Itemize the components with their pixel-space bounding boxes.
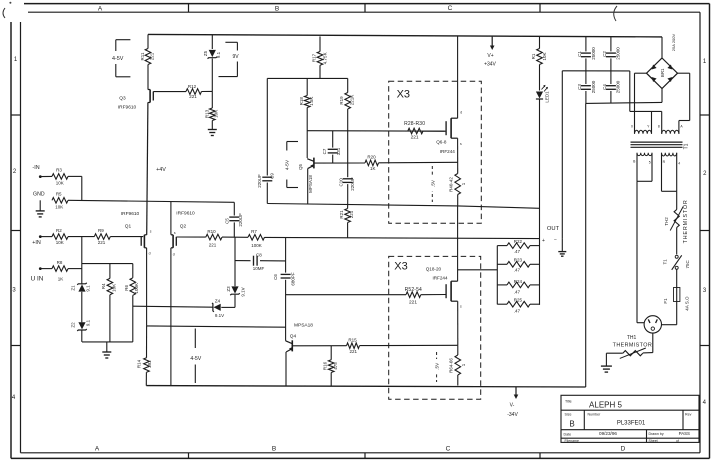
svg-text:R12: R12: [188, 84, 197, 89]
svg-text:10MF: 10MF: [253, 266, 265, 271]
svg-text:25000: 25000: [616, 47, 621, 60]
svg-text:s: s: [460, 305, 462, 309]
svg-text:100K: 100K: [134, 283, 139, 294]
svg-text:221: 221: [350, 349, 358, 354]
wire mid cap rail: [562, 70, 630, 72]
wire C6 to Q4 collector: [285, 280, 287, 341]
wire source resistors to OUT bus: [458, 206, 540, 208]
svg-text:221: 221: [409, 300, 417, 306]
svg-text:s: s: [460, 142, 462, 146]
wire R28-R30 to gate: [423, 130, 446, 132]
title block col lines: [583, 410, 585, 430]
svg-text:220UF: 220UF: [238, 213, 243, 227]
wire R8 to Z node: [68, 268, 82, 270]
svg-text:MPSA18: MPSA18: [308, 175, 313, 193]
svg-text:.5V: .5V: [430, 179, 435, 187]
svg-text:T1: T1: [684, 143, 690, 149]
wire R6 to Z4: [133, 306, 213, 307]
svg-text:Z3: Z3: [226, 286, 231, 292]
resistor R16: [330, 346, 332, 360]
svg-text:X3: X3: [394, 260, 407, 272]
svg-text:V+: V+: [487, 53, 493, 59]
svg-text:R3: R3: [56, 167, 62, 172]
wire thermal switch to fuse: [676, 269, 678, 287]
border zone ticks right: [700, 114, 710, 116]
svg-text:475: 475: [333, 362, 338, 370]
svg-text:PL33FE01: PL33FE01: [617, 421, 646, 427]
svg-text:R5: R5: [56, 192, 62, 197]
wire OUT bus vertical: [539, 101, 541, 305]
wire Z4 to Z3 node: [221, 306, 235, 308]
svg-text:C6: C6: [273, 274, 278, 280]
wire +IN to R2: [40, 236, 52, 238]
wire 0V bus: [561, 71, 563, 239]
svg-text:R1: R1: [531, 53, 536, 59]
svg-text:C: C: [446, 446, 451, 453]
wire R52-54 to gate: [421, 294, 446, 296]
svg-text:MPSA18: MPSA18: [294, 323, 313, 329]
svg-text:X3: X3: [397, 88, 410, 100]
wire R12 to Z5 node: [202, 90, 213, 92]
svg-text:1.5K: 1.5K: [309, 97, 314, 106]
resistor R3: [52, 174, 68, 180]
wire bridge top to V+ rail: [661, 37, 663, 58]
svg-text:10K: 10K: [112, 284, 117, 292]
svg-text:Z5: Z5: [203, 50, 208, 56]
svg-text:R24: R24: [514, 279, 523, 284]
wire Q18-20 drain up: [457, 206, 459, 281]
resistor R23: [507, 262, 530, 268]
svg-text:4-5V: 4-5V: [190, 356, 201, 362]
svg-text:Sheet: Sheet: [649, 439, 658, 443]
resistor R2: [52, 234, 68, 240]
svg-text:C8: C8: [256, 253, 262, 258]
resistor R15: [347, 343, 360, 349]
svg-text:C4: C4: [602, 84, 607, 90]
svg-text:-34V: -34V: [507, 412, 518, 418]
svg-text:R8: R8: [57, 260, 63, 265]
zener Z4: [214, 304, 221, 311]
wire U IN to R8: [40, 268, 52, 270]
svg-text:C2: C2: [602, 51, 607, 57]
wire V- bus vertical: [585, 103, 587, 387]
wire Q5 base to R20: [315, 162, 366, 164]
svg-text:U IN: U IN: [31, 276, 44, 283]
svg-text:0: 0: [631, 125, 633, 129]
resistor R1: [539, 37, 541, 49]
resistor R13: [211, 91, 213, 108]
transformer T1 secondary right: [662, 130, 679, 134]
marker .5V lower dashed: [436, 352, 438, 382]
X3 upper box: [389, 81, 482, 223]
svg-text:of: of: [676, 439, 679, 443]
svg-text:A: A: [95, 446, 100, 453]
capacitor C3: [585, 71, 587, 84]
svg-text:A: A: [98, 6, 103, 13]
resistor R19: [347, 78, 349, 92]
bridge BR1 diode BL: [652, 77, 657, 82]
wire gate bus Q1 to Q4: [147, 326, 286, 327]
marker .5V lower label: [434, 359, 440, 374]
svg-text:R10: R10: [207, 229, 216, 234]
wire primary left to plug: [636, 181, 638, 322]
svg-text:C10: C10: [338, 178, 343, 187]
wire R3 to GND net: [68, 175, 82, 177]
wire Q2 gate to R10: [176, 236, 206, 238]
svg-text:+34V: +34V: [484, 62, 496, 68]
svg-text:OUT: OUT: [547, 226, 560, 232]
svg-text:1K: 1K: [370, 166, 376, 171]
svg-text:4-5V: 4-5V: [112, 56, 124, 62]
resistor R9: [94, 234, 110, 240]
wire OUT minus to ground: [561, 239, 563, 252]
resistor R64-66: [455, 355, 461, 375]
wire R9 to Q1 gate: [110, 236, 143, 238]
svg-text:.5V: .5V: [435, 362, 440, 370]
svg-text:T1: T1: [662, 259, 667, 265]
svg-text:D: D: [621, 446, 626, 453]
svg-text:Q4: Q4: [290, 333, 297, 339]
title block outline: [561, 395, 699, 442]
resistor R12: [186, 89, 202, 95]
AC plug P1: [644, 316, 661, 333]
zener Z1: [78, 284, 85, 291]
svg-text:8: 8: [658, 125, 660, 129]
transistor Q5 MPSA18: [313, 158, 315, 169]
wire Z3 to Z4 wire: [234, 295, 236, 308]
transistor Q2 IRF9610: [172, 235, 174, 248]
marker .5V upper label: [430, 176, 436, 191]
border zone ticks left: [11, 114, 21, 116]
svg-text:9.1: 9.1: [216, 51, 221, 58]
svg-text:331: 331: [336, 147, 341, 155]
svg-text:1K: 1K: [58, 277, 64, 282]
transistor Q3 IRF9610: [149, 90, 151, 103]
svg-text:R20: R20: [367, 155, 376, 160]
transistor Q6-8 IRF244: [450, 118, 452, 138]
svg-text:Z4: Z4: [215, 298, 221, 303]
resistor R18: [306, 78, 308, 95]
capacitor C10: [343, 178, 353, 180]
svg-text:R22: R22: [514, 239, 523, 244]
svg-text:10K: 10K: [56, 240, 64, 245]
thermistor TH1: [623, 351, 643, 356]
resistor R14: [146, 326, 148, 358]
svg-text:IRF9610: IRF9610: [176, 211, 195, 217]
svg-text:ALEPH 5: ALEPH 5: [589, 401, 622, 410]
svg-text:Z2: Z2: [70, 322, 75, 328]
svg-text:R4: R4: [101, 283, 106, 289]
svg-text:R16: R16: [323, 361, 328, 370]
svg-text:R17: R17: [312, 53, 317, 62]
svg-text:IRF244: IRF244: [440, 149, 456, 154]
wire cap bottom rail: [586, 102, 662, 103]
svg-text:IRF9610: IRF9610: [121, 211, 140, 217]
svg-text:Q6-8: Q6-8: [436, 140, 447, 145]
wire Q1 drain down: [146, 248, 148, 326]
capacitor C6: [281, 273, 291, 275]
svg-text:B: B: [275, 6, 279, 13]
svg-text:F1: F1: [663, 298, 668, 304]
wire source sense junction to R64-66: [457, 345, 459, 355]
svg-text:TH1: TH1: [627, 335, 637, 341]
transformer T1 core: [631, 141, 683, 143]
wire +IN node vertical: [81, 237, 83, 285]
wire R20 to source sense: [379, 161, 458, 164]
wire R22 right stub: [530, 245, 540, 247]
wire feedback R7 to OUT: [265, 237, 540, 238]
resistor R7: [248, 235, 265, 241]
svg-text:5: 5: [649, 160, 651, 164]
svg-text:THERMISTOR: THERMISTOR: [683, 199, 689, 243]
bridge BR1 outline: [647, 58, 678, 89]
svg-text:R40-42: R40-42: [448, 177, 453, 192]
capacitor C4: [610, 71, 612, 84]
svg-text:Drawn by: Drawn by: [649, 432, 664, 436]
svg-text:R15: R15: [348, 337, 357, 342]
zener Z3: [231, 286, 238, 293]
svg-text:4: 4: [678, 161, 680, 165]
border outer frame: [24, 3, 710, 5]
resistor R10: [206, 234, 222, 240]
resistor R22: [507, 243, 530, 249]
svg-text:221: 221: [98, 240, 106, 245]
svg-text:680PF: 680PF: [291, 272, 296, 286]
svg-text:d: d: [149, 252, 151, 256]
svg-text:Filename: Filename: [565, 439, 579, 443]
thermistor TH2: [674, 210, 679, 228]
resistor R11: [147, 34, 149, 48]
wire lower drain to Rsense bar: [458, 269, 498, 271]
svg-text:10K: 10K: [55, 204, 63, 209]
wire clamp bottom bus: [82, 341, 133, 343]
capacitor C1: [585, 37, 587, 52]
resistor R5: [52, 198, 68, 204]
bracket 9V: [236, 42, 238, 50]
ground below clamp network: [106, 342, 108, 352]
resistor R17: [319, 36, 321, 51]
ground OUT minus: [558, 251, 566, 253]
svg-text:R19: R19: [339, 96, 344, 105]
svg-text:R7: R7: [251, 229, 257, 234]
ground at GND input: [39, 200, 41, 210]
svg-text:C5: C5: [225, 218, 230, 224]
svg-text:Q3: Q3: [119, 96, 126, 102]
capacitor C7: [332, 131, 334, 148]
svg-text:R18: R18: [299, 97, 304, 106]
svg-text:C7: C7: [322, 148, 327, 154]
wire primary right stubs: [661, 153, 663, 178]
scan cut mark top: [614, 6, 617, 21]
wire Q3 gate to R12: [153, 91, 186, 93]
svg-text:IRF244: IRF244: [432, 275, 448, 280]
wire gate bus R18 to Q6-8 gate: [307, 130, 444, 133]
resistor R52-54: [406, 292, 421, 298]
svg-text:9.1: 9.1: [86, 319, 91, 326]
svg-text:+: +: [542, 238, 545, 244]
svg-text:C3: C3: [577, 84, 582, 90]
wire Rsense left bar: [496, 246, 498, 305]
svg-text:+4V: +4V: [156, 167, 166, 173]
svg-text:Size: Size: [565, 412, 572, 416]
svg-text:.47: .47: [514, 249, 521, 254]
wire Q6-8 source down: [457, 138, 459, 173]
wire Q4 emitter down: [285, 352, 287, 386]
wire center tap: [629, 71, 631, 112]
svg-text:Q1: Q1: [125, 224, 132, 230]
svg-text:GND: GND: [33, 191, 45, 197]
border zone ticks bottom: [188, 453, 190, 459]
node V- -34V arrow: [515, 387, 517, 396]
wire Q2 source up: [170, 202, 172, 235]
capacitor C5: [233, 202, 235, 215]
svg-text:Q2: Q2: [180, 224, 187, 230]
svg-text:9.1V: 9.1V: [215, 313, 224, 318]
transistor Q4 MPSA18: [291, 340, 293, 351]
svg-text:4-5V: 4-5V: [285, 159, 291, 170]
scan speck: [9, 2, 11, 4]
wire TH2 to thermal switch: [676, 228, 678, 255]
wire R2 to R9: [68, 236, 94, 238]
svg-text:25000: 25000: [591, 80, 596, 93]
svg-text:C1: C1: [577, 51, 582, 57]
svg-text:+IN: +IN: [32, 240, 41, 246]
thermal switch T1 75C: [675, 255, 678, 258]
svg-text:10K: 10K: [542, 52, 547, 60]
svg-text:R9: R9: [98, 228, 104, 233]
svg-text:R25: R25: [514, 298, 523, 303]
resistor R20: [365, 160, 379, 166]
svg-text:Number: Number: [588, 412, 602, 416]
wire primary right down: [676, 191, 678, 209]
wire Z2 to bottom bus: [81, 331, 83, 342]
svg-text:25000: 25000: [616, 80, 621, 93]
svg-text:PASS: PASS: [679, 431, 690, 436]
wire clamp top bus: [82, 263, 133, 265]
capacitor C9 on left edge: [266, 78, 268, 175]
svg-text:LED1: LED1: [545, 91, 550, 103]
wire R10 to node: [222, 236, 248, 238]
zener Z5: [211, 35, 213, 49]
resistor R21: [347, 204, 349, 209]
svg-text:.47: .47: [514, 268, 521, 273]
wire bridge bottom to V- rail: [661, 89, 663, 103]
svg-text:09/23/96: 09/23/96: [599, 431, 617, 436]
svg-text:221: 221: [150, 52, 155, 60]
wire V+ top rail: [148, 34, 662, 37]
svg-text:Q5: Q5: [298, 164, 303, 171]
svg-text:221: 221: [209, 243, 217, 248]
svg-text:220UF: 220UF: [350, 177, 355, 191]
fuse F1: [674, 288, 680, 302]
wire bridge left AC: [635, 72, 647, 74]
ground below R13: [208, 129, 217, 131]
bridge BR1 diode TL: [652, 65, 657, 70]
svg-text:221: 221: [349, 210, 354, 218]
resistor R25: [507, 301, 530, 307]
svg-text:9.1: 9.1: [86, 285, 91, 292]
svg-text:C: C: [448, 5, 453, 12]
svg-text:s: s: [150, 229, 152, 233]
svg-text:R28-R30: R28-R30: [404, 121, 425, 127]
wire gate drive to lower bank: [286, 294, 406, 296]
bracket 4-5V box: [286, 142, 288, 151]
svg-text:R64-66: R64-66: [448, 358, 453, 373]
svg-text:25A 200V: 25A 200V: [671, 33, 676, 51]
wire node to C8 branch: [234, 237, 236, 286]
capacitor C8: [235, 260, 251, 262]
wire Q6-8 drain to V+ rail: [457, 36, 459, 118]
svg-text:TH2: TH2: [664, 217, 669, 226]
svg-text:4.75K: 4.75K: [322, 52, 327, 64]
svg-text:B: B: [272, 446, 276, 453]
wire Q2 drain down: [170, 248, 172, 386]
wire TH1 to ground: [606, 352, 622, 354]
resistor R8: [52, 266, 68, 272]
wire primary left stubs: [636, 153, 638, 182]
svg-text:V-: V-: [510, 403, 515, 409]
wire fuse to plug: [676, 302, 678, 325]
zener Z2: [78, 322, 85, 329]
svg-text:Date: Date: [564, 432, 572, 436]
transformer T1 primary left: [637, 153, 652, 156]
border inner frame: [28, 11, 700, 13]
wire plug to TH1: [652, 333, 654, 353]
wire front box top edge: [267, 77, 347, 79]
bridge BR1 diode TR: [667, 65, 672, 70]
svg-text:221: 221: [411, 135, 419, 141]
title block row lines: [561, 409, 699, 411]
wire bridge right AC: [678, 72, 690, 74]
svg-text:75C: 75C: [685, 260, 690, 269]
svg-text:d: d: [460, 111, 462, 115]
svg-text:220UF: 220UF: [257, 174, 262, 188]
diode LED1: [536, 92, 543, 99]
resistor R40-42: [455, 174, 461, 195]
svg-text:s: s: [174, 231, 176, 235]
svg-text:.47: .47: [514, 308, 521, 313]
svg-text:221: 221: [189, 94, 197, 99]
bridge BR1 diode BR: [667, 77, 672, 82]
wire Z1 to Z2: [81, 292, 83, 323]
svg-text:Rev: Rev: [685, 412, 692, 416]
svg-text:25000: 25000: [591, 47, 596, 60]
svg-text:-IN: -IN: [32, 165, 39, 171]
transistor Q1 IRF9610: [143, 235, 145, 248]
svg-text:9V: 9V: [232, 54, 239, 60]
svg-text:R21: R21: [339, 210, 344, 219]
capacitor C2: [610, 37, 612, 52]
wire Q5 emitter down: [307, 169, 309, 204]
transistor Q18-20 IRF244: [450, 281, 452, 301]
node V+ +34V arrow: [491, 37, 493, 47]
svg-text:IRF9610: IRF9610: [118, 105, 137, 111]
svg-text:221K: 221K: [349, 95, 354, 106]
transformer T1 primary right: [662, 153, 677, 156]
svg-text:BR1: BR1: [660, 68, 665, 77]
marker .5V upper dashed: [431, 166, 433, 202]
wire +4V rail Q3 drain to Q1 source: [147, 102, 148, 235]
wire front box bottom edge: [267, 204, 458, 206]
wire Q18-20 source down: [457, 301, 459, 345]
wire R15 to sense: [360, 344, 458, 346]
svg-text:Z1: Z1: [70, 285, 75, 291]
svg-text:Q18-20: Q18-20: [426, 267, 442, 272]
wire V- bottom rail: [146, 386, 585, 387]
svg-text:392: 392: [147, 360, 152, 368]
border zone ticks top: [188, 4, 190, 13]
svg-text:THERMISTOR: THERMISTOR: [613, 342, 653, 348]
